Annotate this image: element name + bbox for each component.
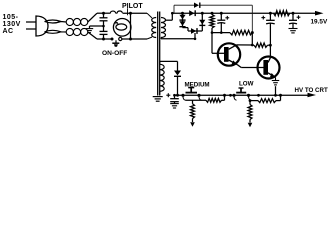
capacitor C5 [266,13,275,57]
node R8 top [279,94,282,97]
wire R8 rise [276,95,281,100]
node C3 bottom [220,31,223,34]
wire R6 rise [222,95,225,100]
arrow 19.5V [315,11,324,16]
wire bottom slant [88,32,97,39]
switch S3 contact left [232,94,235,97]
resistor R5 [191,100,195,122]
node bridge B [201,12,204,15]
label MEDIUM [185,82,210,89]
plus C5 [261,16,265,20]
node Q1 collector [251,44,254,47]
lamp DS1 [113,19,131,37]
svg-text:PILOT: PILOT [122,3,143,10]
transistor Q2 [258,57,280,79]
wire bottom AC rail [97,38,111,40]
switch S3 contact right [247,94,250,97]
transformer T1 primary [152,18,157,38]
wire S3 curl right [248,95,251,100]
wire node row [212,32,230,34]
node bus D6 [176,94,179,97]
label 19.5V [311,18,328,25]
wire Q1 collector junction [251,33,253,45]
switch S2 contact left [181,94,184,97]
leader PILOT [127,8,129,15]
node bus mid [257,94,260,97]
ground core [153,97,163,102]
diode D1 [179,15,185,20]
choke L2 [66,28,88,35]
arrow HV [308,93,317,97]
svg-text:ON-OFF: ON-OFF [102,50,127,57]
wire S3 curl left [234,95,237,100]
resistor R6 [206,98,222,102]
resistor R4 [274,11,290,16]
diode D2 [179,21,185,26]
ground C6 [289,29,298,33]
switch S1 contact right [119,37,122,40]
ground Q2 [272,81,279,85]
cord twist top [45,20,67,23]
transistor Q1 [218,43,253,65]
switch S3 plunger [236,88,246,93]
diode D3 [191,28,197,34]
plug P1 body [36,16,48,36]
svg-text:AC: AC [3,28,14,35]
ground C7 [170,104,179,108]
switch S1 contact left [111,38,114,41]
plus C7 [166,93,170,97]
svg-text:105-: 105- [3,14,19,21]
switch S2 contact right [197,94,200,97]
capacitor C3 [217,13,225,32]
label 105-130V AC [3,14,21,35]
svg-text:130V: 130V [3,21,21,28]
label PILOT [122,3,143,10]
node R6 top [223,94,226,97]
resistor R2 [230,30,252,35]
capacitor C7 [170,95,179,104]
label ON-OFF [102,50,127,57]
resistor R8 [258,99,276,103]
node bus extra [229,94,232,97]
wire Q2 ground stub [275,86,277,95]
capacitor C2 [100,26,108,39]
wire S1 to lamp [122,38,147,40]
wire S2 curl right [199,95,202,100]
node lamp bottom [129,38,132,41]
plus C6 [297,15,301,19]
svg-text:LOW: LOW [239,81,254,88]
wire top AC rail [97,12,111,14]
wire Q1 emitter to Q2 base [238,65,264,68]
switch S2 plunger [186,88,198,93]
wire secondary A top lead [165,13,172,20]
wire S2 lower path [186,99,207,101]
node R1 top [211,12,214,15]
node lamp top [129,12,132,15]
capacitor C6 [289,13,297,28]
wire Q2 emitter [275,77,277,80]
wire secondary B bottom lead [159,91,161,94]
transformer T1 primary top lead [147,13,152,18]
node C7 top [173,94,176,97]
node filter bottom [102,38,105,41]
switch S1 toggle [112,40,119,47]
wire D6 to bus [177,77,179,96]
node C6 top [292,12,295,15]
wire Q1 base [212,33,224,54]
wire bypass [174,5,252,33]
node C5 top [269,12,272,15]
node Q2 stub [274,94,277,97]
svg-text:HV TO CRT: HV TO CRT [295,87,328,94]
wire S2 curl left [183,95,186,100]
transformer T1 primary bottom lead [147,37,152,39]
ground filter [86,29,93,33]
arrow R5 [190,122,195,127]
plug P1 prongs [26,22,37,29]
node R3 right [269,44,272,47]
diode D6 [174,71,181,77]
capacitor C1 [100,13,108,26]
fuse F1 [110,11,122,13]
transformer T1 core [158,12,160,96]
wire top slant [88,13,97,22]
wire S3 lower path [250,100,258,102]
wire R3 to C5 column [252,44,270,46]
diode D4 [199,20,205,26]
wire DC top rail [172,12,316,14]
wire top AC rail 2 [123,12,148,14]
wire bridge bottom [183,28,203,31]
cord twist bottom [45,30,67,33]
label LOW [239,81,254,88]
node secondary jog [171,12,174,15]
wire filter ground tap [90,26,104,28]
plus C3 [225,16,229,20]
resistor R3 [254,43,268,47]
wire lamp branch [130,13,132,39]
wire secondary B top lead [160,61,178,70]
wire R1 to node [211,28,213,33]
svg-text:19.5V: 19.5V [311,18,328,25]
resistor R1 [210,15,214,29]
wire bridge right column [201,13,203,31]
node bridge A [181,12,184,15]
diode D7 [189,10,195,16]
node filter top [102,12,105,15]
resistor R7 [248,101,252,123]
node R1 bottom [211,31,214,34]
node filter mid [102,25,105,28]
transformer T1 secondary B [160,64,164,91]
node C3 top [220,12,223,15]
label HV TO CRT [295,87,328,94]
wire HV bus [175,94,309,96]
arrow R7 [248,123,253,128]
node S3 lower [249,99,252,102]
wire bridge left column [182,13,184,27]
node R2 right [251,31,254,34]
wire secondary A bottom lead [161,33,196,40]
diode D5 [194,3,200,8]
transformer T1 secondary A [161,18,166,38]
choke L1 [66,18,88,25]
